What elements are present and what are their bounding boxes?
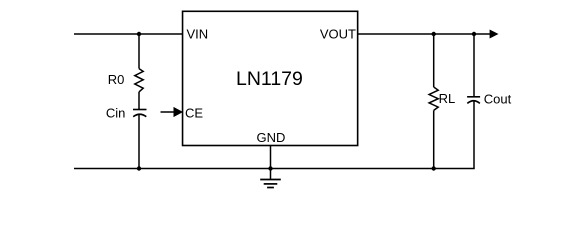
wire input to VIN — [74, 33, 183, 35]
output terminal arrow — [490, 30, 499, 39]
op-amp U1 LN1179 body — [183, 11, 358, 145]
wire junction down to R0 — [138, 34, 140, 69]
svg-text:GND: GND — [257, 130, 286, 145]
wire RL to rail — [433, 110, 435, 168]
ground — [260, 180, 281, 188]
svg-text:VOUT: VOUT — [320, 26, 356, 41]
svg-text:LN1179: LN1179 — [236, 68, 303, 90]
svg-text:R0: R0 — [108, 72, 125, 87]
wire down to Cout — [473, 34, 475, 97]
capacitor Cout — [467, 97, 480, 104]
node VIN junction — [137, 32, 141, 36]
wire down to RL — [433, 34, 435, 87]
svg-text:VIN: VIN — [187, 26, 209, 41]
resistor R0 — [135, 69, 143, 92]
node VOUT junction at RL — [432, 32, 436, 36]
node input branch to rail — [137, 166, 141, 170]
svg-text:Cin: Cin — [106, 106, 126, 121]
wire ground rail — [74, 168, 475, 170]
node RL to rail — [432, 166, 436, 170]
wire Cin to ground rail — [138, 115, 140, 169]
svg-text:CE: CE — [185, 106, 203, 121]
svg-text:RL: RL — [439, 91, 456, 106]
wire rail to ground symbol — [270, 169, 272, 180]
resistor RL — [429, 87, 438, 110]
svg-text:Cout: Cout — [484, 92, 512, 107]
wire GND pin to rail — [270, 146, 272, 169]
node GND junction — [268, 166, 272, 170]
capacitor Cin — [133, 110, 147, 117]
CE input arrow — [161, 107, 184, 117]
node VOUT junction at Cout — [472, 32, 476, 36]
wire VOUT output — [358, 33, 491, 35]
wire Cout to rail — [473, 102, 475, 169]
wire R0 to Cin — [138, 92, 140, 110]
